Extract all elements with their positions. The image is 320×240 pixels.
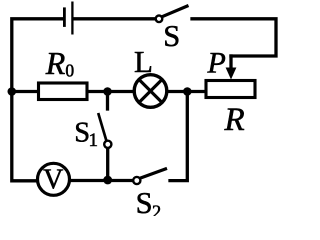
svg-text:2: 2 xyxy=(152,203,161,216)
svg-text:R: R xyxy=(224,102,245,138)
svg-text:0: 0 xyxy=(65,60,74,80)
svg-text:S: S xyxy=(136,186,153,216)
svg-text:V: V xyxy=(43,165,63,196)
svg-text:P: P xyxy=(207,47,226,80)
svg-text:L: L xyxy=(134,44,153,79)
svg-text:S: S xyxy=(163,19,180,53)
svg-text:1: 1 xyxy=(89,130,99,151)
svg-text:R: R xyxy=(45,45,66,81)
